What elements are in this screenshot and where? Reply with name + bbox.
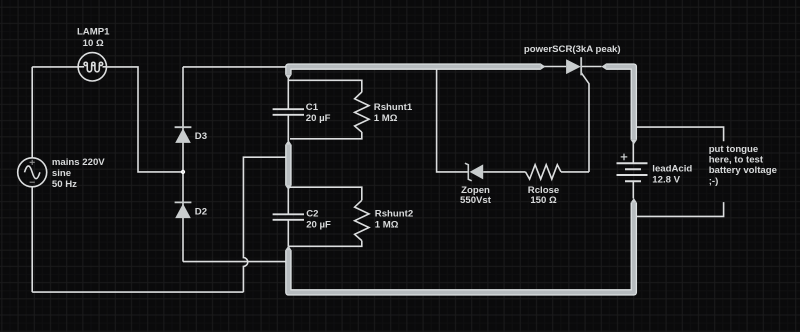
svg-text:;-): ;-): [709, 176, 719, 187]
zener Zopen: [465, 163, 483, 181]
wire bottom left horizontal: [32, 291, 243, 293]
label C2: [306, 209, 331, 231]
thick wire tapered tips: [285, 63, 637, 250]
svg-text:put tongue: put tongue: [709, 144, 759, 155]
tip bus stub down: [285, 75, 292, 80]
capacitor C2: [273, 214, 304, 220]
wire C2 leads: [287, 189, 289, 247]
svg-text:12.8 V: 12.8 V: [652, 175, 680, 186]
wire top row: source to lamp: [32, 66, 78, 68]
svg-text:here, to test: here, to test: [709, 155, 764, 166]
AC minus mark: [30, 181, 35, 183]
wire battery leads: [632, 142, 634, 199]
thick bus wires (outer bright shell): [288, 67, 633, 293]
label C1: [306, 102, 331, 124]
diode D3: [175, 127, 192, 143]
svg-text:150 Ω: 150 Ω: [530, 195, 557, 206]
wire diode bottom to thick corner: [183, 261, 287, 263]
tip riser top (up): [285, 246, 292, 251]
svg-text:battery voltage: battery voltage: [709, 165, 777, 176]
wire AC-return vertical with hop over crossing: [243, 157, 286, 292]
tip mid segment top (up): [285, 140, 292, 145]
svg-text:1 MΩ: 1 MΩ: [375, 220, 399, 231]
resistor Rshunt2: [355, 200, 369, 240]
wire thick lower loop core: [288, 203, 633, 293]
resistor Rshunt1: [355, 92, 369, 132]
svg-text:leadAcid: leadAcid: [652, 164, 692, 175]
resistor Rclose: [526, 165, 562, 179]
svg-text:powerSCR(3kA peak): powerSCR(3kA peak): [524, 44, 621, 55]
svg-text:C1: C1: [306, 102, 319, 113]
AC plus mark: [30, 160, 35, 165]
svg-text:20 µF: 20 µF: [306, 113, 331, 124]
wire left vertical (AC loop): [31, 67, 33, 292]
label Zopen: [460, 185, 492, 206]
tip bus right: [541, 63, 546, 70]
AC source mains: [18, 158, 47, 187]
label tongue note: [709, 144, 777, 187]
svg-text:sine: sine: [52, 168, 71, 179]
thyristor powerSCR: [566, 57, 581, 75]
thick bus wires (inner core): [288, 67, 633, 293]
label mains source: [52, 157, 105, 190]
wire Rshunt2 parallel loop: [289, 187, 362, 246]
wire thick mid-column segment: [285, 145, 292, 186]
svg-text:50 Hz: 50 Hz: [52, 179, 77, 190]
wire thick SCR-to-corner and right vertical upper: [606, 67, 634, 140]
label Rclose: [528, 185, 559, 206]
wire diode column: [182, 67, 184, 262]
tip mid segment bottom (down): [285, 185, 292, 190]
wire tongue-test stub bottom: [634, 202, 724, 216]
svg-text:mains 220V: mains 220V: [52, 157, 105, 168]
tip battery bottom (up): [631, 198, 638, 203]
tip battery top (down): [631, 140, 638, 145]
wire gate riser to SCR: [581, 73, 589, 172]
wire tongue-test stub top: [634, 127, 724, 141]
svg-text:LAMP1: LAMP1: [77, 26, 110, 37]
battery leadAcid: [617, 163, 648, 181]
wire C1 leads: [287, 75, 289, 141]
wire thick mid segment core: [286, 145, 290, 186]
svg-text:Rshunt1: Rshunt1: [374, 102, 413, 113]
node junction dot: [182, 170, 185, 173]
svg-text:20 µF: 20 µF: [306, 220, 331, 231]
svg-text:Rshunt2: Rshunt2: [375, 209, 413, 220]
wire thick SCR-right core: [606, 67, 634, 140]
diode D2: [175, 202, 192, 218]
svg-text:10 Ω: 10 Ω: [83, 38, 104, 49]
label LAMP1: [77, 26, 110, 49]
wire lamp to jog down to diode junction: [106, 67, 183, 172]
svg-text:D3: D3: [195, 131, 207, 142]
label Rshunt1: [374, 102, 413, 124]
battery plus mark: [621, 154, 628, 161]
tip thick SCR-right left: [601, 63, 606, 70]
svg-text:550Vst: 550Vst: [460, 195, 492, 206]
wire trigger branch: bus down, Zopen row: [437, 67, 589, 172]
wire thick right vertical lower, bottom bus, left riser: [288, 203, 633, 293]
lamp LAMP1: [78, 53, 106, 81]
svg-text:1 MΩ: 1 MΩ: [374, 113, 398, 124]
wire SCR leads: [543, 66, 601, 68]
svg-text:C2: C2: [306, 209, 318, 220]
wire diode top to thick bus: [183, 66, 290, 68]
svg-text:D2: D2: [195, 206, 207, 217]
label Rshunt2: [375, 209, 413, 231]
wire Rshunt1 parallel loop: [288, 80, 362, 139]
label leadAcid: [652, 164, 692, 186]
capacitor C1: [273, 109, 304, 115]
wire thick top bus with left stub: [288, 67, 540, 75]
wire thick top bus core: [288, 67, 540, 75]
